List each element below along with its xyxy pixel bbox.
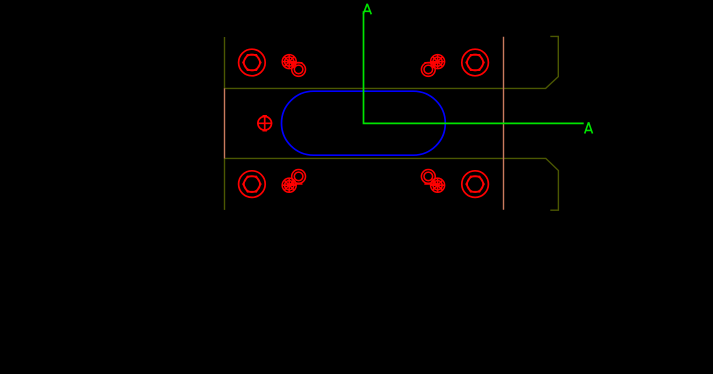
nut-washer cluster W4 (bottom-right) bbox=[421, 170, 444, 193]
bolt B4 (bottom-right) bbox=[462, 171, 489, 198]
nut-washer cluster W2 (top-right) bbox=[421, 55, 444, 77]
part outline left edge bottom band bbox=[224, 158, 226, 210]
slot (blue obround) bbox=[282, 91, 446, 155]
label A top bbox=[363, 4, 371, 15]
center mark bbox=[257, 116, 272, 131]
bolt B1 (top-left) bbox=[239, 49, 266, 76]
part outline left edge top band bbox=[224, 37, 226, 88]
nut-washer cluster W1 (top-left) bbox=[282, 55, 305, 77]
bolt B3 (bottom-left) bbox=[239, 171, 266, 198]
part outline top-right bracket with chamfer bbox=[225, 36, 559, 88]
section line A-A bbox=[364, 11, 584, 123]
part outline bottom-right bracket with chamfer bbox=[225, 158, 559, 210]
label A right bbox=[585, 122, 593, 133]
bolt B2 (top-right) bbox=[462, 49, 489, 76]
nut-washer cluster W3 (bottom-left) bbox=[282, 170, 305, 193]
hidden plate edge right (salmon) bbox=[503, 37, 505, 210]
hidden plate edge left (salmon) bbox=[224, 88, 226, 158]
